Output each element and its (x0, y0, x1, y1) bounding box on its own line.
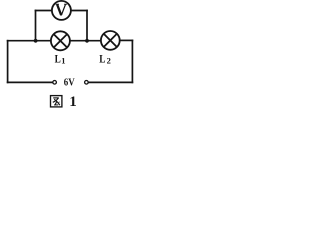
svg-text:1: 1 (61, 56, 65, 66)
svg-text:1: 1 (69, 94, 77, 109)
svg-text:L: L (55, 51, 61, 65)
svg-text:L: L (99, 51, 105, 65)
svg-text:6V: 6V (64, 78, 76, 89)
svg-text:2: 2 (107, 56, 111, 66)
